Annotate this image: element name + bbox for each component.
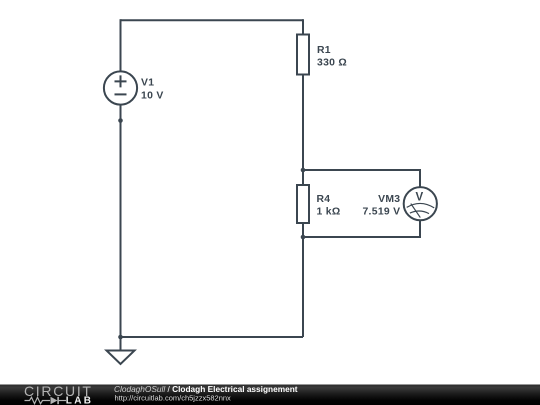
junction dot node R4 top — [301, 168, 306, 173]
svg-text:V: V — [416, 191, 424, 203]
wire left vertical upper — [120, 19, 122, 71]
wire right vertical R1 top lead — [302, 19, 304, 34]
svg-text:1 kΩ: 1 kΩ — [317, 207, 341, 218]
footer bar — [0, 385, 540, 405]
resistor R1 — [297, 35, 309, 75]
voltmeter needle — [411, 204, 421, 218]
resistor R4 — [297, 185, 309, 223]
logo schematic wire — [25, 397, 67, 403]
V1 plus sign — [115, 75, 127, 87]
svg-text:V1: V1 — [141, 78, 154, 89]
svg-text:VM3: VM3 — [378, 194, 400, 205]
svg-text:LAB: LAB — [66, 396, 93, 405]
svg-text:330 Ω: 330 Ω — [317, 58, 347, 69]
svg-text:R1: R1 — [317, 45, 331, 56]
voltage source V1 — [104, 71, 137, 104]
svg-text:10 V: 10 V — [141, 90, 164, 101]
voltmeter scale arc 2 — [410, 211, 429, 214]
svg-text:http://circuitlab.com/ch5jzzx5: http://circuitlab.com/ch5jzzx582nnx — [115, 393, 232, 402]
wire voltmeter top — [303, 170, 420, 187]
junction dot ground node — [118, 335, 123, 340]
voltmeter VM3 — [404, 187, 437, 220]
logo diode — [51, 397, 59, 404]
ground lead — [120, 337, 122, 351]
V1 minus sign — [115, 93, 127, 95]
wire top horizontal — [121, 19, 304, 21]
wire below R4 — [302, 223, 304, 337]
junction dot below V1 — [118, 118, 123, 123]
junction dot node R4 bottom — [301, 235, 306, 240]
svg-text:7.519 V: 7.519 V — [362, 207, 400, 218]
wire voltmeter bottom — [303, 220, 420, 237]
voltmeter scale arc 1 — [407, 203, 435, 207]
wire bottom horizontal — [121, 336, 304, 338]
svg-text:R4: R4 — [317, 194, 331, 205]
ground symbol — [107, 351, 135, 365]
wire left vertical lower — [120, 105, 122, 338]
wire R1 to R4 — [302, 75, 304, 186]
